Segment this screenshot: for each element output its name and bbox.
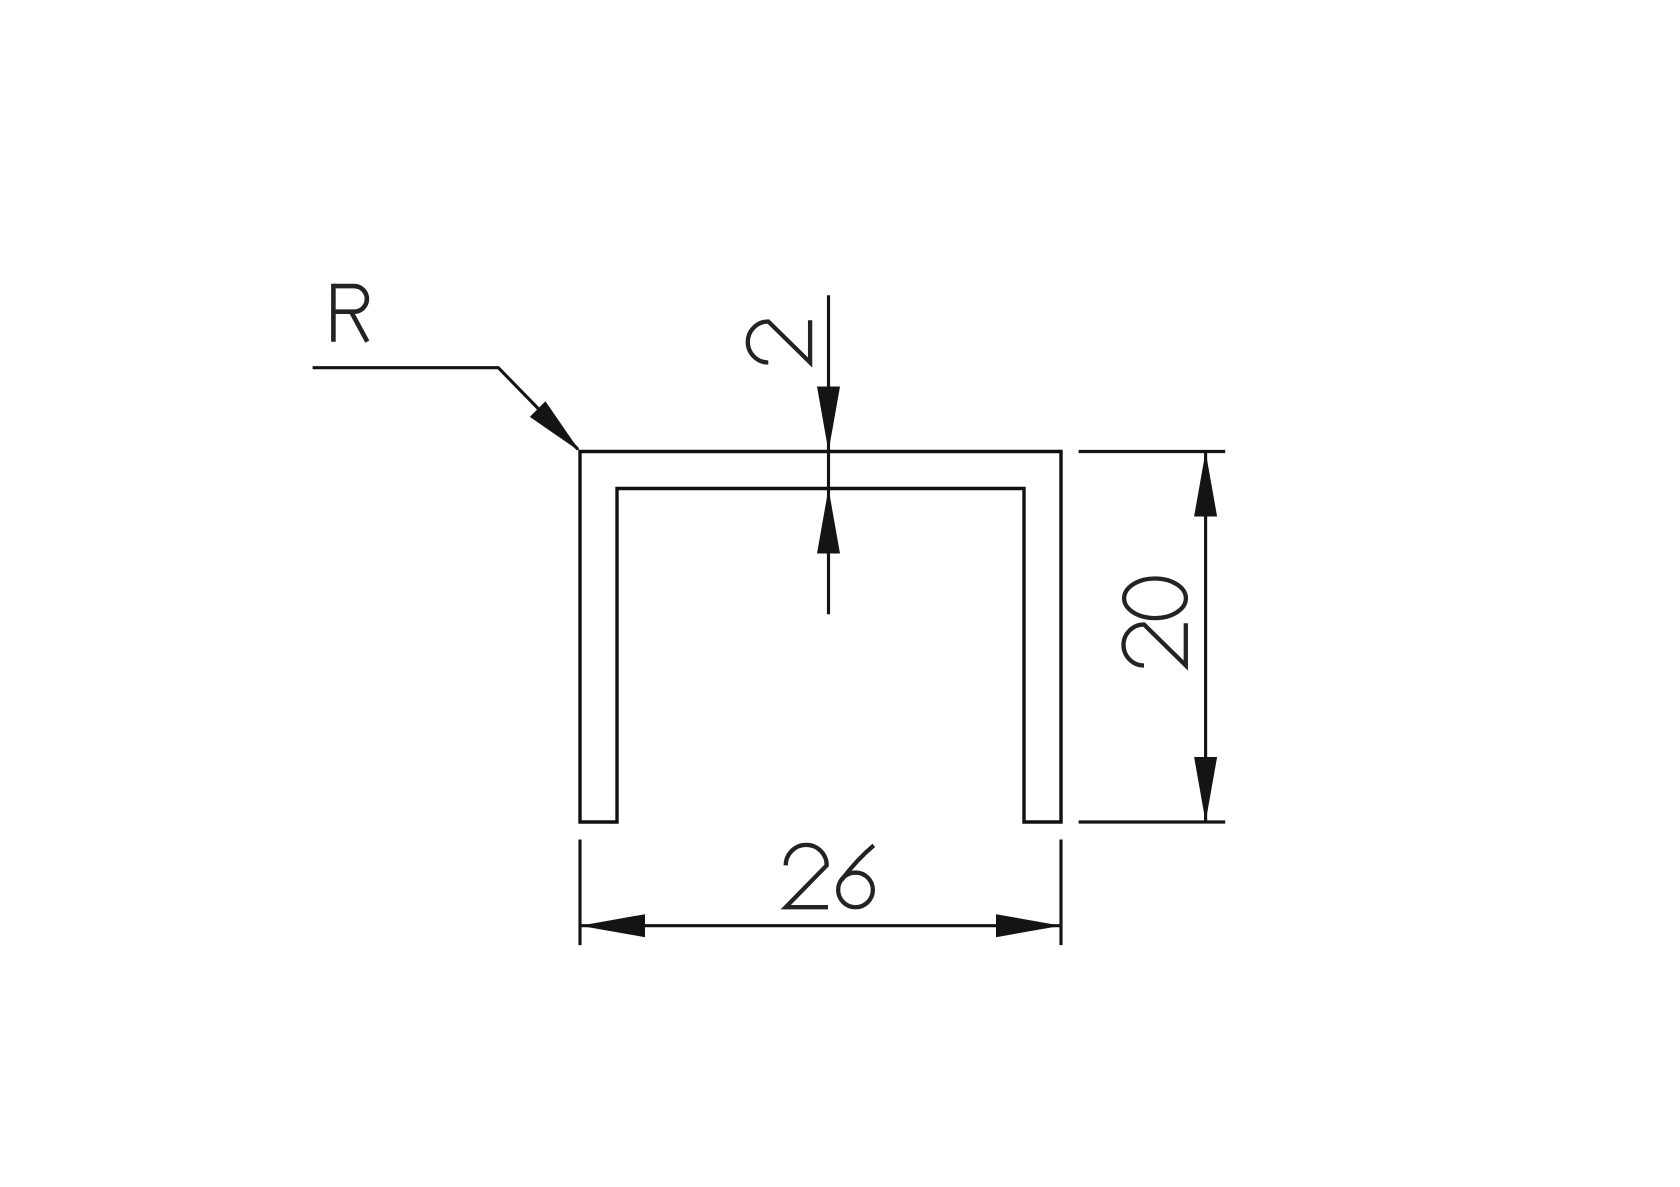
dimension 20 line bbox=[1204, 452, 1207, 823]
dimension 20 arrow top bbox=[1194, 452, 1217, 517]
dimension 20 extension line bottom bbox=[1079, 820, 1226, 823]
U-channel profile outline bbox=[580, 452, 1061, 823]
leader arrowhead bbox=[530, 401, 580, 451]
leader line for R bbox=[313, 368, 578, 450]
dimension 2 (wall thickness) line bbox=[827, 295, 830, 614]
dimension 20 arrow bottom bbox=[1194, 757, 1217, 822]
dimension text 2 (rotated) bbox=[748, 320, 810, 362]
dimension 26 arrow left bbox=[580, 914, 645, 937]
dimension text 26 bbox=[786, 845, 828, 907]
label R bbox=[333, 284, 367, 342]
dimension 2 arrow lower (points up to inner face) bbox=[817, 489, 840, 554]
dimension 26 extension line right bbox=[1059, 840, 1062, 946]
dimension 20 extension line top bbox=[1079, 450, 1226, 453]
dimension 26 extension line left bbox=[578, 840, 581, 946]
dimension 26 arrow right bbox=[996, 914, 1061, 937]
dimension text 20 (rotated) bbox=[1124, 623, 1186, 665]
dimension 26 line bbox=[580, 924, 1061, 927]
dimension 2 arrow upper (points down to outer face) bbox=[817, 387, 840, 452]
